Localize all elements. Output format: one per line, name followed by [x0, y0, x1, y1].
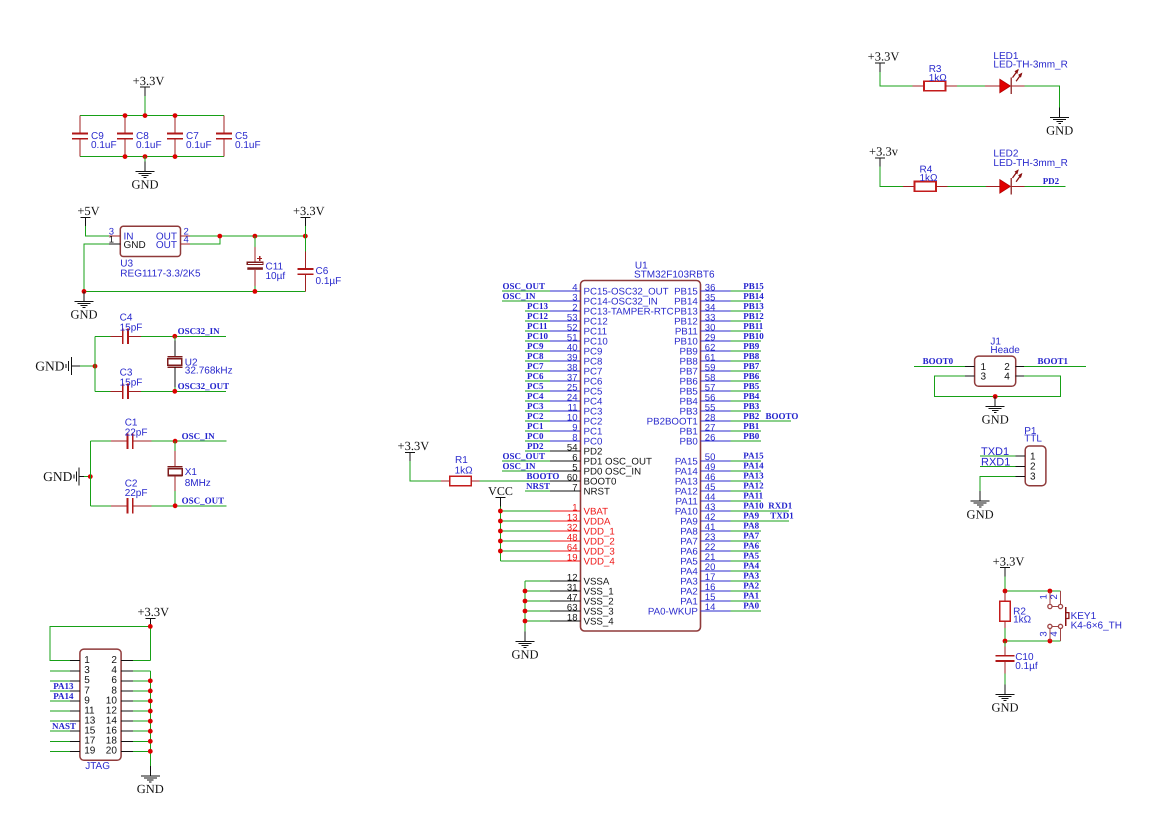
JTAG pin 3 [50, 665, 90, 676]
svg-text:LED-TH-3mm_R: LED-TH-3mm_R [993, 60, 1067, 71]
net label BOOTO (U1 left) [527, 471, 560, 481]
U1 pin 45 PA12 [675, 482, 761, 497]
net label BOOT1 [1038, 356, 1069, 366]
svg-text:REG1117-3.3/2K5: REG1117-3.3/2K5 [120, 269, 201, 280]
wire key top rail [1005, 590, 1061, 592]
net label OSC_OUT [182, 496, 225, 506]
U1 pin 14 PA0-WKUP [648, 602, 761, 617]
U1 pin 38 PC7 [525, 362, 602, 377]
U1 pin 8 PC0 [525, 432, 603, 447]
net label NAST [52, 721, 76, 731]
svg-text:20: 20 [106, 746, 118, 757]
U1 pin 50 PA15 [675, 452, 761, 467]
svg-text:18: 18 [567, 612, 578, 623]
J1 pin 1 [914, 362, 986, 373]
svg-text:PA8: PA8 [743, 521, 759, 531]
svg-text:OSC32_OUT: OSC32_OUT [178, 381, 230, 391]
wire VSS bus [524, 581, 526, 632]
svg-text:GND: GND [35, 359, 64, 374]
junction dot OSC32_IN [172, 334, 177, 339]
svg-text:1: 1 [109, 234, 114, 245]
U1 pin 20 PA4 [680, 562, 761, 577]
regulator U3 body [120, 226, 201, 279]
capacitor C3 [95, 368, 175, 399]
svg-text:19: 19 [567, 552, 578, 563]
svg-text:RXD1: RXD1 [981, 456, 1010, 468]
wire bottom GND rail [84, 290, 305, 292]
svg-text:1kΩ: 1kΩ [920, 173, 939, 184]
wire rail to GND [144, 157, 146, 162]
U1 pin 52 PC11 [525, 322, 607, 337]
svg-text:+3.3v: +3.3v [869, 144, 899, 158]
wire R1 to BOOT0 [480, 480, 550, 482]
net label PC0 (U1 left) [527, 431, 544, 441]
U1 pin 5 PD0 OSC_IN [502, 462, 641, 477]
svg-text:NAST: NAST [52, 721, 76, 731]
net label PB14 (U1 right) [743, 291, 764, 301]
svg-text:0.1uF: 0.1uF [91, 140, 117, 151]
net label PA3 (U1 right) [743, 571, 759, 581]
net label PA10 (U1 right) [743, 501, 792, 511]
net label OSC_OUT (U1 left) [503, 451, 546, 461]
net label PC12 (U1 left) [527, 311, 548, 321]
svg-text:3: 3 [981, 372, 987, 383]
resistor R2 [1000, 591, 1032, 641]
svg-text:PB9: PB9 [743, 341, 760, 351]
svg-text:PB11: PB11 [743, 321, 764, 331]
junction dots VSS bus [523, 589, 528, 624]
svg-text:GND: GND [43, 469, 72, 484]
svg-text:3: 3 [1030, 472, 1036, 483]
ground (P1) [967, 491, 994, 521]
power +3.3V (regulator out) [293, 204, 325, 226]
led LED1 [993, 51, 1067, 94]
U1 pin 15 PA1 [680, 592, 761, 607]
net label PC1 (U1 left) [527, 421, 544, 431]
junction dot key bottom left [1003, 639, 1008, 644]
svg-text:PC12: PC12 [527, 311, 548, 321]
U1 pin 51 PC10 [525, 332, 608, 347]
svg-text:0.1µf: 0.1µf [1015, 661, 1038, 672]
net label NRST (U1 left) [526, 481, 550, 491]
junction dot key bottom right [1048, 639, 1053, 644]
wire 3.3V to pin1 [50, 626, 150, 660]
net label PC9 (U1 left) [527, 341, 544, 351]
svg-text:PB13: PB13 [743, 301, 764, 311]
svg-text:BOOT0: BOOT0 [923, 356, 954, 366]
svg-text:PC7: PC7 [527, 361, 544, 371]
wire 3.3V to R1 [410, 461, 441, 481]
svg-text:+3.3V: +3.3V [398, 439, 430, 453]
U1 pin 27 PB1 [679, 422, 760, 437]
net label PA6 (U1 right) [743, 541, 759, 551]
U1 pin 61 PB8 [679, 352, 760, 367]
U1 pin 33 PB12 [674, 312, 761, 327]
svg-text:+5V: +5V [77, 204, 99, 218]
JTAG pin 20 [106, 746, 151, 757]
svg-text:PA6: PA6 [743, 541, 759, 551]
power +3.3V (JTAG) [137, 605, 169, 627]
svg-text:1kΩ: 1kΩ [455, 465, 474, 476]
resistor R4 [903, 164, 947, 191]
capacitor C7 [167, 116, 212, 157]
junction dot C11 bottom [253, 289, 258, 294]
svg-text:PA13: PA13 [53, 681, 74, 691]
net label PB13 (U1 right) [743, 301, 764, 311]
net label PB4 (U1 right) [743, 391, 760, 401]
U1 pin 53 PC12 [525, 312, 608, 327]
net label PC11 (U1 left) [527, 321, 548, 331]
svg-text:TTL: TTL [1024, 433, 1042, 444]
U1 pin 36 PB15 [674, 282, 761, 297]
svg-text:15pF: 15pF [120, 322, 143, 333]
svg-text:22pF: 22pF [125, 488, 148, 499]
svg-text:PC11: PC11 [527, 321, 548, 331]
wire R4 to LED2 [947, 185, 999, 187]
wire OSC_IN [175, 440, 226, 442]
svg-text:PA0: PA0 [743, 601, 759, 611]
net label PA4 (U1 right) [743, 561, 759, 571]
JTAG pin 17 [50, 736, 96, 747]
U3 pin 4 OUT [156, 234, 190, 251]
wire +3.3V to rail [144, 96, 146, 116]
U1 pin 1 VBAT [500, 502, 608, 517]
U1 pin 41 PA8 [680, 522, 761, 537]
svg-text:PB10: PB10 [743, 331, 764, 341]
U1 pin 35 PB14 [674, 292, 761, 307]
wire OSC32_IN [175, 335, 226, 337]
svg-text:TXD1: TXD1 [770, 511, 794, 521]
U1 pin 29 PB10 [674, 332, 761, 347]
wire LED2 PD2 [1011, 185, 1065, 187]
mcu U1 body [581, 260, 716, 631]
JTAG pin 1 [50, 655, 90, 666]
JTAG pin 12 [106, 705, 151, 716]
net label PA12 (U1 right) [743, 481, 764, 491]
net label PA13 [53, 681, 74, 691]
net label PB15 (U1 right) [743, 281, 764, 291]
net label PC3 (U1 left) [527, 401, 544, 411]
U3 pin 3 IN [109, 226, 134, 242]
U1 pin 57 PB5 [679, 382, 760, 397]
wire VCC bus [499, 506, 501, 561]
net label PB8 (U1 right) [743, 351, 760, 361]
power port VCC [488, 484, 513, 507]
svg-text:PA12: PA12 [743, 481, 764, 491]
svg-text:NRST: NRST [526, 481, 550, 491]
connector P1 body [1024, 426, 1046, 486]
power +3.3v (LED2) [869, 144, 899, 166]
svg-text:PC0: PC0 [527, 431, 544, 441]
U1 pin 56 PB4 [679, 392, 760, 407]
svg-text:VCC: VCC [488, 484, 513, 498]
svg-text:GND: GND [1046, 124, 1073, 138]
net label PB6 (U1 right) [743, 371, 760, 381]
svg-text:1kΩ: 1kΩ [929, 73, 948, 84]
net label PB5 (U1 right) [743, 381, 760, 391]
U1 pin 30 PB11 [675, 322, 761, 337]
J1 pin 3 [935, 372, 996, 397]
capacitor C5 [216, 116, 261, 157]
net label PB11 (U1 right) [743, 321, 764, 331]
crystal U2 [167, 336, 232, 391]
svg-text:1kΩ: 1kΩ [1013, 615, 1032, 626]
JTAG pin 13 [50, 716, 96, 727]
svg-text:PB3: PB3 [743, 401, 760, 411]
svg-text:PC9: PC9 [527, 341, 544, 351]
net label PA11 (U1 right) [743, 491, 763, 501]
wire left vertical (8M) [89, 441, 91, 506]
net label PB7 (U1 right) [743, 361, 760, 371]
capacitor C4 [95, 312, 175, 344]
svg-text:PC2: PC2 [527, 411, 544, 421]
net label PB0 (U1 right) [743, 431, 760, 441]
U1 pin 7 NRST [525, 482, 610, 497]
svg-text:OSC_OUT: OSC_OUT [182, 496, 225, 506]
net label PB1 (U1 right) [743, 421, 760, 431]
JTAG pin 7 [50, 685, 90, 696]
svg-text:PB14: PB14 [743, 291, 764, 301]
U1 pin 16 PA2 [680, 582, 761, 597]
capacitor C2 [90, 479, 175, 514]
U1 pin 42 PA9 [680, 512, 789, 527]
svg-text:R1: R1 [455, 455, 468, 466]
svg-text:OSC32_IN: OSC32_IN [178, 326, 221, 336]
svg-text:8MHz: 8MHz [185, 478, 211, 489]
P1 pin 3 [980, 472, 1036, 492]
net label OSC32_OUT [178, 381, 230, 391]
net label PA14 (U1 right) [743, 461, 764, 471]
junction dot key top right [1048, 589, 1053, 594]
svg-text:PB5: PB5 [743, 381, 760, 391]
net label PC8 (U1 left) [527, 351, 544, 361]
svg-text:OSC_IN: OSC_IN [182, 431, 216, 441]
U1 pin 40 PC9 [525, 342, 602, 357]
svg-text:PB8: PB8 [743, 351, 760, 361]
U1 pin 39 PC8 [525, 352, 602, 367]
net label PA15 (U1 right) [743, 451, 764, 461]
U1 pin 4 PC15-OSC32_OUT [502, 282, 669, 297]
capacitor C10 [996, 641, 1038, 684]
svg-text:4: 4 [1049, 631, 1060, 636]
svg-text:0.1µF: 0.1µF [316, 276, 342, 287]
U1 pin 18 VSS_4 [525, 612, 614, 627]
ground (JTAG) [137, 766, 164, 796]
junction dot OSC_IN [173, 439, 178, 444]
wire OUT pin4 up [190, 236, 220, 244]
U1 pin 55 PB3 [679, 402, 760, 417]
net label PC2 (U1 left) [527, 411, 544, 421]
ground (regulator) [70, 291, 97, 321]
JTAG pin 8 [111, 685, 150, 696]
net label OSC_IN (U1 left) [503, 291, 537, 301]
svg-text:32.768kHz: 32.768kHz [185, 366, 233, 377]
svg-text:22pF: 22pF [125, 428, 148, 439]
net label PC4 (U1 left) [527, 391, 544, 401]
svg-text:PA15: PA15 [743, 451, 764, 461]
svg-text:4: 4 [184, 234, 189, 245]
svg-text:PA7: PA7 [743, 531, 759, 541]
U1 pin 11 PC3 [525, 402, 602, 417]
svg-text:OUT: OUT [156, 240, 177, 251]
svg-text:+3.3V: +3.3V [133, 74, 165, 88]
wire JTAG GND bus [149, 671, 151, 766]
svg-text:0.1uF: 0.1uF [235, 140, 261, 151]
svg-text:GND: GND [991, 701, 1018, 715]
svg-text:PB4: PB4 [743, 391, 760, 401]
svg-text:RXD1: RXD1 [768, 501, 792, 511]
junction dot OSC32_OUT [172, 389, 177, 394]
U1 pin 60 BOOT0 [550, 472, 617, 487]
J1 pin 2 [1004, 362, 1086, 373]
capacitor C1 [90, 418, 175, 449]
svg-text:GND: GND [511, 648, 538, 662]
switch KEY1 [1038, 591, 1122, 641]
capacitor C9 [72, 116, 117, 157]
svg-text:GND: GND [124, 240, 146, 251]
wire LED1 to GND [1011, 86, 1059, 107]
net label PA14 [53, 691, 74, 701]
net label PB9 (U1 right) [743, 341, 760, 351]
U1 pin 64 VDD_3 [500, 542, 614, 557]
svg-text:PB12: PB12 [743, 311, 764, 321]
svg-text:PA5: PA5 [743, 551, 759, 561]
net label PD2 (LED2) [1043, 176, 1060, 186]
svg-text:BOOTO: BOOTO [766, 411, 799, 421]
junction dots 3.3V rail [217, 234, 307, 239]
svg-text:PA1: PA1 [743, 591, 759, 601]
net label PA7 (U1 right) [743, 531, 759, 541]
wire OSC_OUT [175, 505, 226, 507]
junction dot J1 GND [993, 394, 998, 399]
net label OSC_OUT (U1 left) [503, 281, 546, 291]
U1 pin 46 PA13 [675, 472, 761, 487]
svg-text:GND: GND [70, 308, 97, 322]
JTAG pin 16 [106, 726, 151, 737]
svg-text:+3.3V: +3.3V [137, 605, 169, 619]
wire OUT rail 3.3V [190, 235, 305, 237]
wire R3 to LED1 [957, 85, 1000, 87]
svg-text:15pF: 15pF [120, 378, 143, 389]
JTAG pin 19 [50, 746, 96, 757]
net label PA0 (U1 right) [743, 601, 759, 611]
net label PB12 (U1 right) [743, 311, 764, 321]
U1 pin 47 VSS_2 [525, 592, 614, 607]
connector JTAG body [80, 649, 121, 772]
U1 pin 22 PA6 [680, 542, 761, 557]
svg-text:PA3: PA3 [743, 571, 759, 581]
svg-text:PA14: PA14 [743, 461, 764, 471]
junction dot JTAG 3.3V [148, 624, 153, 629]
svg-text:PB0: PB0 [743, 431, 760, 441]
P1 pin 1 TXD1 [980, 451, 1036, 462]
svg-text:3: 3 [1038, 631, 1049, 636]
svg-text:PB6: PB6 [743, 371, 760, 381]
U1 pin 58 PB6 [679, 372, 760, 387]
svg-text:14: 14 [705, 602, 716, 613]
junction dots top rail [123, 113, 178, 118]
svg-text:NRST: NRST [584, 487, 610, 498]
U3 pin 2 OUT [156, 226, 190, 242]
svg-text:OSC_IN: OSC_IN [503, 291, 537, 301]
net label OSC32_IN [178, 326, 221, 336]
svg-text:PC6: PC6 [527, 371, 544, 381]
capacitor C6 [297, 236, 341, 291]
led LED2 [993, 148, 1067, 194]
net label PD2 (U1 left) [527, 441, 544, 451]
U1 pin 43 PA10 [675, 502, 789, 517]
power +5V [77, 204, 99, 226]
svg-text:VDD_4: VDD_4 [584, 557, 616, 568]
net label PC10 (U1 left) [527, 331, 548, 341]
net label PA8 (U1 right) [743, 521, 759, 531]
ground (U1 VSS) [511, 632, 538, 662]
svg-text:PC5: PC5 [527, 381, 544, 391]
connector J1 body [975, 337, 1021, 387]
net label PA9 (U1 right) [743, 511, 794, 521]
JTAG pin 18 [106, 736, 151, 747]
junction dot OSC_OUT [173, 503, 178, 508]
svg-text:PB2: PB2 [743, 411, 760, 421]
junction dot GND port 8M [88, 474, 93, 479]
U1 pin 13 VDDA [500, 512, 611, 527]
JTAG pin 15 [50, 726, 96, 737]
JTAG pin 4 [111, 665, 150, 676]
U1 pin 10 PC2 [525, 412, 602, 427]
net label PC13 (U1 left) [527, 301, 548, 311]
U1 pin 17 PA3 [680, 572, 761, 587]
svg-text:0.1uF: 0.1uF [136, 140, 162, 151]
U1 pin 24 PC4 [525, 392, 603, 407]
net label PA13 (U1 right) [743, 471, 764, 481]
net port GND (32k crystal) [35, 357, 80, 375]
wire OSC32_OUT [175, 390, 226, 392]
svg-text:OSC_OUT: OSC_OUT [503, 451, 546, 461]
net label BOOT0 [923, 356, 954, 366]
wire top rail VCC [80, 115, 224, 117]
U1 pin 32 VDD_1 [500, 522, 614, 537]
svg-text:PB1: PB1 [743, 421, 760, 431]
svg-text:19: 19 [84, 746, 96, 757]
net label PC7 (U1 left) [527, 361, 544, 371]
power +3.3V (LED1) [868, 50, 900, 72]
net label PC6 (U1 left) [527, 371, 544, 381]
svg-text:X1: X1 [185, 467, 198, 478]
ground (J1) [982, 397, 1009, 427]
net label PA2 (U1 right) [743, 581, 759, 591]
wire left vertical (32k) [94, 336, 96, 391]
junction dot GND port [93, 364, 98, 369]
U1 pin 3 PC14-OSC32_IN [502, 292, 658, 307]
power +3.3V (R1) [398, 439, 430, 461]
wire key bottom rail [1005, 640, 1061, 642]
U1 pin 28 PB2BOOT1 [647, 412, 792, 427]
svg-text:PA9: PA9 [743, 511, 759, 521]
svg-text:PA11: PA11 [743, 491, 763, 501]
svg-text:PC10: PC10 [527, 331, 548, 341]
svg-text:PC3: PC3 [527, 401, 544, 411]
ground (LED1) [1046, 107, 1073, 137]
wire 3.3v to R4 [880, 167, 903, 187]
power +3.3V (KEY1) [993, 554, 1025, 576]
svg-text:LED-TH-3mm_R: LED-TH-3mm_R [993, 158, 1067, 169]
U1 pin 6 PD1 OSC_OUT [502, 452, 652, 467]
JTAG pin 5 [50, 675, 90, 686]
net label RXD1 [981, 456, 1010, 468]
capacitor C8 [117, 116, 162, 157]
junction dots JTAG bus [148, 678, 153, 753]
P1 pin 2 RXD1 [980, 462, 1036, 473]
